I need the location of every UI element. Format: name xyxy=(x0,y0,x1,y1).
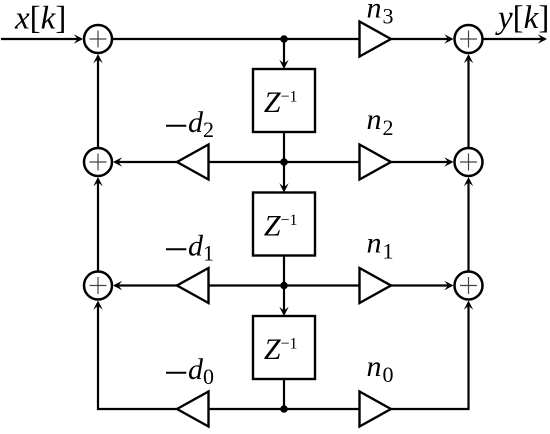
wire: node B to gain n2 xyxy=(284,161,360,163)
wire: n2 output into right adder row2 xyxy=(391,157,454,166)
wire: node C to gain -d1 xyxy=(208,284,284,286)
wire: node D to gain n0 xyxy=(284,408,360,410)
wire: n3 output to right adder row1 xyxy=(391,34,454,43)
gain n1 (triangle amplifier) xyxy=(360,268,392,303)
wire: input x[k] into left adder row1 xyxy=(1,34,83,43)
node A: junction dot on top wire xyxy=(280,35,288,43)
wire: delay2 to delay3 (through node C) xyxy=(279,256,288,317)
svg-text:−1: −1 xyxy=(281,89,298,106)
svg-text:3: 3 xyxy=(383,3,394,28)
svg-text:n: n xyxy=(367,227,382,260)
wire: n0 output right then up into right adder row3 xyxy=(391,301,473,410)
svg-text:−1: −1 xyxy=(281,336,298,353)
gain -d1 (triangle amplifier, left pointing) xyxy=(177,268,209,303)
wire: node C to gain n1 xyxy=(284,284,360,286)
svg-text:2: 2 xyxy=(203,117,214,142)
svg-text:n: n xyxy=(367,103,382,136)
wire: right adder row3 up into right adder row2 xyxy=(464,177,473,272)
node C: junction dot row3 xyxy=(280,282,288,290)
svg-text:Z: Z xyxy=(264,209,281,242)
adder left row3 xyxy=(84,272,112,300)
gain -d2 (triangle amplifier, left pointing) xyxy=(177,145,209,180)
wire: left adder row3 up into left adder row2 xyxy=(93,177,102,272)
delay block Z^-1 (second) xyxy=(253,193,315,256)
gain -d0 (triangle amplifier, left pointing) xyxy=(177,392,209,427)
wire: left adder row1 to right adder row1 (through node A) xyxy=(112,38,360,40)
svg-text:1: 1 xyxy=(203,241,214,266)
gain n3 (triangle amplifier) xyxy=(360,22,392,57)
wire: delay3 down to bottom row node D xyxy=(283,379,285,409)
adder left row2 xyxy=(84,148,112,176)
svg-text:n: n xyxy=(367,0,382,25)
node B: junction dot row2 xyxy=(280,158,288,166)
svg-text:d: d xyxy=(188,230,204,263)
label -d2 xyxy=(166,125,186,127)
wire: n1 output into right adder row3 xyxy=(391,281,454,290)
wire: -d1 output into left adder row3 xyxy=(113,281,177,290)
svg-text:2: 2 xyxy=(383,115,394,140)
svg-text:0: 0 xyxy=(203,364,214,389)
label -d0 xyxy=(166,372,186,374)
delay block Z^-1 (first) xyxy=(253,69,315,132)
wire: left adder row2 up into left adder row1 xyxy=(93,54,102,148)
wire: node B to gain -d2 xyxy=(208,161,284,163)
delay block Z^-1 (third) xyxy=(253,316,315,379)
wire: node D to gain -d0 xyxy=(208,408,284,410)
svg-text:d: d xyxy=(188,353,204,386)
wire: delay1 to delay2 (through node B) xyxy=(279,132,288,193)
svg-text:Z: Z xyxy=(264,86,281,119)
svg-text:1: 1 xyxy=(383,238,394,263)
wire: -d2 output into left adder row2 xyxy=(113,157,177,166)
wire: -d0 output left then up into left adder row3 xyxy=(93,301,177,410)
node D: junction dot bottom row xyxy=(280,405,288,413)
svg-text:y[k]: y[k] xyxy=(495,0,549,36)
wire: output y[k] xyxy=(483,34,548,43)
adder right row2 xyxy=(455,148,483,176)
svg-text:d: d xyxy=(188,106,204,139)
wire: node A down into delay 1 xyxy=(279,39,288,69)
svg-text:0: 0 xyxy=(383,362,394,387)
svg-text:n: n xyxy=(367,350,382,383)
gain n0 (triangle amplifier) xyxy=(360,392,392,427)
adder top-right (output adder) xyxy=(455,25,483,53)
adder (summing node) top-left xyxy=(84,25,112,53)
gain n2 (triangle amplifier) xyxy=(360,145,392,180)
svg-text:−1: −1 xyxy=(281,212,298,229)
wire: right adder row2 up into right adder row1 xyxy=(464,54,473,148)
svg-text:x[k]: x[k] xyxy=(14,0,66,36)
adder right row3 xyxy=(455,272,483,300)
label -d1 xyxy=(166,248,186,250)
svg-text:Z: Z xyxy=(264,333,281,366)
